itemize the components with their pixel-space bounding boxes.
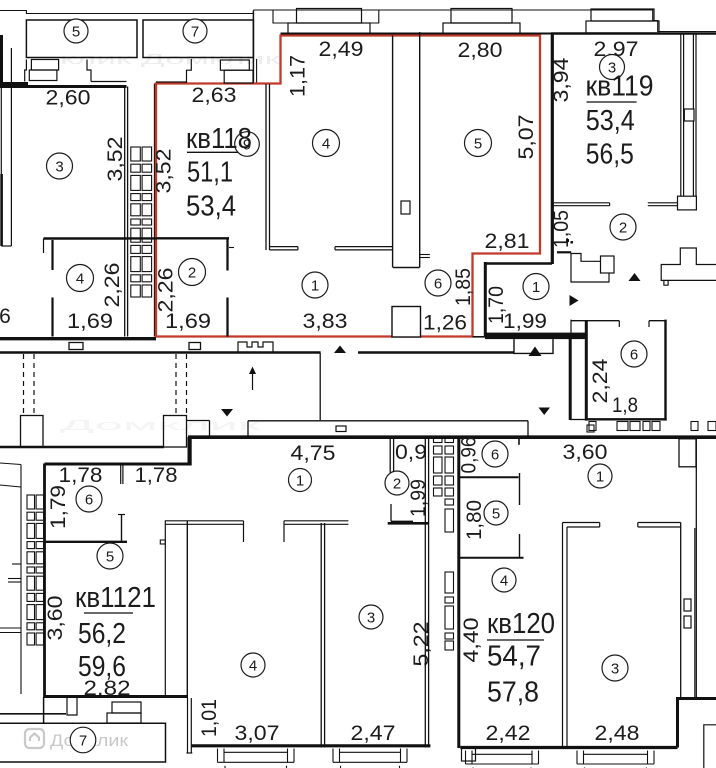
door jamb right bbox=[283, 521, 285, 542]
party wall hatch column kv118-left bbox=[131, 147, 141, 161]
kv119 left wall bbox=[551, 34, 554, 265]
svg-text:1: 1 bbox=[532, 279, 540, 296]
balcony 7 step box lower bbox=[224, 70, 253, 83]
balcony 7 bottom box bbox=[0, 723, 166, 762]
shaft wall rooms4-5 right line bbox=[419, 32, 421, 268]
svg-text:1,01: 1,01 bbox=[198, 699, 221, 737]
window room5 kv118 upper box bbox=[451, 9, 512, 24]
hatch row right of stair bbox=[589, 422, 596, 431]
upper block bottom wall right segment bbox=[358, 351, 514, 354]
kv1121 balcony step box2 bbox=[107, 713, 141, 723]
porch right vertical bbox=[43, 697, 45, 723]
left wall double line y630 bbox=[0, 627, 21, 629]
room circle 5 kv120 bbox=[484, 501, 508, 525]
kv1121 right wall double bbox=[424, 437, 426, 747]
kv120 top wall left cap bbox=[599, 523, 601, 528]
triangle up mid band door bbox=[334, 346, 346, 354]
svg-text:7: 7 bbox=[191, 23, 199, 40]
corridor step vertical left bbox=[247, 421, 249, 437]
svg-text:2,47: 2,47 bbox=[351, 722, 396, 745]
svg-text:4: 4 bbox=[76, 270, 84, 287]
svg-text:2,63: 2,63 bbox=[192, 84, 237, 107]
kv1121 bottom wall bbox=[44, 695, 188, 698]
kv120 bottom wall bbox=[460, 746, 677, 749]
svg-text:1,26: 1,26 bbox=[423, 312, 467, 335]
svg-text:2,24: 2,24 bbox=[589, 358, 612, 403]
pier below top wall kv120 bbox=[679, 439, 696, 467]
arrow up entry bbox=[629, 273, 641, 281]
kv120 right wall lower thick bbox=[676, 697, 679, 748]
room circle 5 kv1121 bbox=[97, 543, 123, 569]
window sill room4 kv1121 bbox=[217, 749, 219, 763]
hatch column kv1121 left bbox=[27, 495, 35, 509]
stairs landing foot bbox=[664, 280, 668, 285]
bathroom right wall kv118 bbox=[484, 262, 487, 337]
arrow right entry bbox=[570, 295, 579, 306]
rooms 4-3 divider double line bbox=[320, 523, 322, 748]
kv120 partition 6-5 bbox=[459, 476, 519, 478]
stair room6 right wall bbox=[664, 320, 666, 421]
left outer vertical line bbox=[20, 465, 22, 695]
kv120 partition 6-5 stub bbox=[519, 473, 521, 505]
upper block bottom inner line bbox=[0, 337, 156, 340]
left wall piece y580 bbox=[8, 578, 21, 580]
kv120 room3 top wall left double bbox=[563, 522, 600, 524]
svg-text:3,52: 3,52 bbox=[153, 149, 176, 194]
window kv119 upper box bbox=[591, 9, 654, 21]
entry door frame polygon bbox=[571, 254, 609, 283]
window kv119 lower box bbox=[586, 21, 659, 33]
svg-text:3,52: 3,52 bbox=[104, 137, 127, 182]
stair room6 left connector bbox=[570, 320, 572, 337]
svg-text:5: 5 bbox=[474, 135, 482, 152]
label underline kv120 bbox=[487, 639, 544, 641]
lower block top wall bbox=[188, 435, 716, 439]
triangle down stair bbox=[539, 408, 551, 416]
kv1121 bottom wall rooms bbox=[192, 744, 431, 747]
svg-text:3: 3 bbox=[611, 660, 619, 677]
partition room6-5 kv1121 bbox=[45, 541, 128, 543]
balcony 5 step box lower bbox=[29, 70, 57, 81]
svg-text:3,07: 3,07 bbox=[235, 722, 280, 745]
kv119 top wall bbox=[551, 32, 716, 35]
left wall bottom cap bbox=[1, 245, 11, 247]
balcony 7 circle bbox=[70, 727, 96, 753]
partition stub cap bbox=[118, 514, 125, 516]
corridor bottom piece bbox=[570, 419, 586, 421]
stair room6 top wall left piece bbox=[571, 320, 619, 322]
partition left segment end cap bbox=[297, 247, 299, 250]
bottom right notch lines bbox=[704, 725, 716, 768]
svg-text:1,8: 1,8 bbox=[612, 394, 638, 417]
svg-text:7: 7 bbox=[79, 732, 87, 749]
svg-text:2,80: 2,80 bbox=[458, 39, 503, 62]
stair room6 top wall right piece bbox=[649, 320, 667, 322]
window block in mid band bbox=[189, 343, 201, 350]
svg-text:3: 3 bbox=[367, 609, 375, 626]
kv119 partition room3-room2 left double bbox=[552, 202, 609, 204]
kv120 outer right wall bbox=[695, 439, 697, 698]
window room4 kv118 upper box bbox=[297, 9, 362, 24]
upper block bottom wall left segment bbox=[0, 351, 321, 354]
kv1121 top-left wall end post bbox=[188, 437, 192, 466]
svg-text:5: 5 bbox=[492, 505, 500, 522]
kv120 partition 5-4 stub bbox=[519, 534, 521, 558]
room circle 2 kv1121 bbox=[385, 471, 409, 495]
hatch square under stair bbox=[587, 425, 594, 432]
stairs landing polygon right bbox=[661, 248, 716, 280]
room circle 1 kv120 bbox=[588, 464, 612, 488]
svg-text:1,69: 1,69 bbox=[165, 310, 211, 333]
room circle 6 kv118 bbox=[425, 270, 451, 296]
wall tick right of shaft bbox=[420, 254, 430, 256]
balcony 7 circle bbox=[183, 19, 207, 43]
room2 right wall upper bbox=[226, 238, 228, 270]
svg-text:6: 6 bbox=[630, 346, 638, 363]
svg-text:4,75: 4,75 bbox=[291, 442, 336, 465]
svg-text:4: 4 bbox=[500, 572, 508, 589]
kv120 partition 5-4 bbox=[459, 557, 524, 559]
window jamb right of room4 window bbox=[370, 10, 379, 23]
pier outline left bbox=[21, 416, 44, 448]
pier outline right bbox=[164, 416, 187, 448]
svg-text:1,78: 1,78 bbox=[59, 464, 103, 487]
room circle 6 kv1121 bbox=[76, 486, 102, 512]
svg-text:1: 1 bbox=[296, 472, 304, 489]
balcony 5 door jamb left bbox=[25, 60, 27, 82]
bath wall stub vertical bbox=[390, 504, 392, 521]
kv120 balcony step bottom left bbox=[462, 748, 476, 761]
shaft bottom cap bbox=[393, 267, 420, 269]
svg-text:1,99: 1,99 bbox=[503, 310, 547, 333]
stair room6 bottom wall bbox=[585, 418, 667, 420]
balcony 7 step box upper bbox=[220, 60, 249, 70]
left outer wall lower thick part bbox=[0, 174, 3, 246]
svg-text:2,60: 2,60 bbox=[46, 87, 91, 110]
wall tick below top wall bbox=[518, 439, 520, 445]
kv118 red apartment outline bbox=[156, 36, 540, 337]
room circle 4 kv118 bbox=[313, 130, 340, 157]
wall slab left of balcony5 steps bbox=[0, 82, 28, 87]
svg-text:6: 6 bbox=[0, 305, 11, 328]
left balcony edge lines bbox=[0, 463, 21, 465]
room2 right wall lower bbox=[226, 298, 228, 337]
balcony 5 circle bbox=[64, 19, 88, 43]
svg-text:1,05: 1,05 bbox=[550, 210, 573, 248]
kv1121 room4 left wall bbox=[186, 521, 188, 698]
svg-text:6: 6 bbox=[434, 275, 442, 292]
corridor ledge vertical bbox=[209, 421, 211, 437]
svg-text:5: 5 bbox=[72, 23, 80, 40]
svg-text:56,2: 56,2 bbox=[78, 618, 126, 650]
balcony 7 box bbox=[143, 20, 253, 58]
svg-text:1,78: 1,78 bbox=[135, 464, 178, 487]
room circle 5 kv118 bbox=[465, 130, 492, 157]
threshold under balcony 7 left jamb bbox=[187, 59, 192, 83]
svg-text:1,99: 1,99 bbox=[407, 479, 430, 517]
stair room6 left wall bbox=[585, 321, 588, 421]
kv1121 top wall left section bbox=[45, 463, 189, 466]
partition room4 bottom left segment double bbox=[270, 246, 298, 248]
room circle 3 bbox=[47, 153, 73, 179]
kv119 partition room3-room2 right double bbox=[648, 202, 678, 204]
kv119 partition left cap bbox=[609, 203, 611, 206]
svg-text:3,60: 3,60 bbox=[563, 441, 608, 464]
wall stub below top wall kv1121 bbox=[120, 464, 122, 484]
label underline kv1121 bbox=[84, 612, 133, 614]
svg-text:1,69: 1,69 bbox=[67, 310, 113, 333]
svg-text:1: 1 bbox=[596, 468, 604, 485]
svg-text:3,94: 3,94 bbox=[550, 57, 573, 102]
room circle 1 stairhall bbox=[523, 274, 549, 300]
svg-text:6: 6 bbox=[491, 446, 499, 463]
svg-text:6: 6 bbox=[85, 491, 93, 508]
door leaf kv119 right wall bbox=[684, 109, 694, 121]
entry door lintel bbox=[557, 251, 571, 253]
window sill left kv120 bbox=[465, 751, 467, 765]
vent block above red line bbox=[392, 307, 421, 338]
room circle 6 kv120 bbox=[482, 441, 508, 467]
vent rect kv120 right 1 bbox=[684, 599, 691, 611]
svg-text:5,22: 5,22 bbox=[410, 622, 433, 667]
room 4 left wall lower piece bbox=[51, 298, 53, 337]
svg-text:кв118: кв118 bbox=[186, 123, 252, 155]
kv1121 bath bottom wall thick bbox=[388, 522, 429, 525]
kv1121 balcony step jamb bbox=[67, 697, 77, 715]
window jamb left of room4 window bbox=[253, 10, 288, 23]
room circle 2 kv118 bbox=[179, 259, 206, 286]
svg-text:2,42: 2,42 bbox=[486, 722, 531, 745]
left wall piece y564 bbox=[12, 563, 21, 565]
room circle 3 kv119 bbox=[600, 55, 625, 80]
stair steps symbol mid band bbox=[238, 342, 273, 353]
room circle 4 kv120 bbox=[492, 568, 516, 592]
room circle 1 kv1121 bbox=[289, 469, 312, 492]
kv120 bottom-right wall band bbox=[676, 697, 716, 700]
room 4 left wall upper piece bbox=[51, 240, 53, 270]
threshold line under balcony 5 bbox=[91, 81, 127, 83]
partition right segment end cap bbox=[334, 247, 336, 250]
svg-text:0,96: 0,96 bbox=[458, 437, 481, 474]
porch line bottom left bbox=[0, 713, 66, 715]
window room5 kv118 lower box bbox=[443, 23, 520, 35]
kv119 right wall inner double bbox=[680, 34, 682, 209]
room 3 right wall double line bbox=[124, 87, 126, 337]
kv120 room3 top wall right double bbox=[638, 522, 681, 524]
svg-text:2,81: 2,81 bbox=[485, 230, 530, 253]
corridor step vertical right bbox=[527, 421, 529, 437]
vent box right of hall bbox=[601, 256, 615, 273]
hatch column kv1121-kv120 party wall bbox=[434, 437, 443, 443]
hallway door tick bbox=[160, 540, 165, 544]
kv120 room3 left wall double bbox=[562, 523, 564, 749]
svg-text:1: 1 bbox=[311, 277, 319, 294]
kv120 left wall bbox=[457, 437, 460, 748]
room circle 2 kv119 bbox=[610, 214, 636, 240]
lower left corridor bottom wall bbox=[0, 446, 164, 449]
room circle 6 stair bbox=[621, 341, 647, 367]
shaft wall rooms4-5 left line bbox=[392, 36, 394, 268]
party wall inner edge at red outline bbox=[154, 84, 156, 337]
hallway thin wall kv1121 bbox=[164, 520, 166, 695]
svg-text:5,07: 5,07 bbox=[515, 115, 538, 160]
svg-text:3,60: 3,60 bbox=[44, 596, 67, 641]
svg-text:0,9: 0,9 bbox=[395, 441, 427, 464]
label underline kv118 bbox=[187, 151, 238, 153]
svg-text:2,49: 2,49 bbox=[319, 38, 364, 61]
corridor wall step down bbox=[514, 339, 553, 353]
room 3 top wall bbox=[0, 85, 127, 88]
kv1121 balcony step box1 bbox=[112, 702, 141, 713]
direction arrow up bbox=[252, 372, 254, 390]
svg-text:53,4: 53,4 bbox=[186, 191, 236, 223]
kv119 outer right wall double bbox=[692, 34, 694, 209]
svg-text:4: 4 bbox=[322, 135, 330, 152]
wall stub between balcony7 and kv118 bbox=[252, 11, 254, 84]
label underline kv119 bbox=[587, 101, 637, 103]
balcony 5 box bbox=[26, 20, 137, 58]
partition room4 bottom right segment double bbox=[335, 246, 393, 248]
vent rect above wall bbox=[336, 426, 346, 432]
stair room6 door jamb left bbox=[618, 321, 620, 327]
svg-text:1,17: 1,17 bbox=[287, 55, 310, 97]
window block left apartment bottom wall bbox=[69, 343, 83, 350]
room circle 3 kv1121 bbox=[359, 605, 383, 629]
room circle 1 kv118 bbox=[302, 272, 328, 298]
kv119 wall junction box bbox=[678, 196, 697, 210]
room 4 partition wall left apartment bbox=[44, 237, 127, 239]
kv120 top wall right cap bbox=[637, 523, 639, 528]
partition stub up bbox=[121, 515, 123, 542]
corridor ledge right of pier bbox=[186, 420, 209, 422]
entry vestibule thick wall segment bbox=[485, 333, 585, 340]
svg-text:56,5: 56,5 bbox=[586, 139, 634, 171]
room2 wall tick bbox=[229, 247, 234, 249]
hall right wall going down bbox=[569, 338, 572, 420]
kv1121 room1 bottom wall left segment double bbox=[165, 520, 243, 522]
svg-text:4: 4 bbox=[249, 657, 257, 674]
svg-text:кв120: кв120 bbox=[487, 608, 555, 640]
svg-text:2,48: 2,48 bbox=[595, 722, 640, 745]
room circle 4 kv1121 bbox=[241, 653, 265, 677]
room circle 4 left apartment bbox=[67, 265, 94, 292]
svg-text:Домклик: Домклик bbox=[60, 417, 261, 434]
partition step left apartment bbox=[43, 239, 45, 254]
window sill room3 kv1121 bbox=[332, 749, 334, 763]
roof edge line top-right bbox=[253, 10, 716, 32]
wall room9-room4 double line bbox=[265, 84, 267, 250]
svg-text:2,26: 2,26 bbox=[101, 263, 124, 308]
second jamb line below balcony 7 bbox=[256, 59, 258, 84]
svg-text:1,80: 1,80 bbox=[463, 500, 486, 540]
svg-text:1,85: 1,85 bbox=[452, 268, 475, 306]
dashed column pair left bbox=[24, 354, 187, 414]
triangle up mid bbox=[529, 347, 542, 357]
red corner connector wall bbox=[473, 336, 486, 338]
window sill right kv120 bbox=[576, 751, 578, 765]
svg-text:54,7: 54,7 bbox=[487, 641, 541, 673]
balcony 5 step box upper bbox=[31, 60, 58, 71]
svg-text:5: 5 bbox=[106, 548, 114, 565]
bath wall stub horizontal bbox=[391, 520, 413, 522]
entry door mark dots bbox=[566, 239, 569, 242]
kv1121 room1 bottom wall mid segment double bbox=[284, 520, 348, 522]
svg-text:51,1: 51,1 bbox=[187, 157, 233, 189]
door jamb left bbox=[243, 521, 245, 542]
svg-text:4,40: 4,40 bbox=[460, 618, 483, 663]
wall going down from upper wall bbox=[319, 353, 321, 420]
kv118 black wall under top red line bbox=[281, 33, 716, 35]
corridor long thin line above lower wall bbox=[248, 420, 528, 422]
svg-text:57,8: 57,8 bbox=[487, 677, 539, 709]
svg-text:кв119: кв119 bbox=[586, 70, 654, 102]
partition crossing party wall bbox=[127, 237, 157, 239]
partition room9-room2 bbox=[157, 237, 230, 239]
svg-text:3,83: 3,83 bbox=[303, 310, 348, 333]
outer wall top-left corner thick bar bbox=[0, 35, 3, 87]
stair room6 door jamb right bbox=[648, 321, 650, 327]
balcony door jamb cap bbox=[186, 752, 192, 754]
svg-text:кв1121: кв1121 bbox=[75, 582, 156, 614]
svg-text:2: 2 bbox=[393, 475, 401, 492]
balcony 5 door jamb right bbox=[87, 60, 91, 82]
vent rect kv120 right 2 bbox=[684, 616, 691, 628]
vestibule top wall bbox=[485, 262, 552, 265]
kv1121 left wall bbox=[43, 464, 46, 698]
kv120 right inner wall bbox=[680, 523, 682, 698]
bath left wall upper bbox=[389, 437, 391, 472]
svg-text:2,26: 2,26 bbox=[155, 268, 178, 313]
window room4 kv118 lower box bbox=[288, 23, 370, 35]
triangle down left corridor bbox=[221, 409, 233, 417]
roof edge line top-left bbox=[0, 11, 253, 14]
room circle 9 kv118 bbox=[235, 132, 260, 157]
threshold line under balcony 7 bbox=[156, 81, 187, 83]
left outer wall double line bbox=[0, 54, 2, 246]
watermark domklik logo bottom left bbox=[25, 729, 44, 748]
svg-text:3: 3 bbox=[55, 158, 63, 175]
svg-text:53,4: 53,4 bbox=[586, 105, 635, 137]
svg-text:1,79: 1,79 bbox=[47, 485, 70, 529]
svg-text:2: 2 bbox=[188, 264, 196, 281]
door leaf in shaft wall bbox=[401, 201, 410, 214]
svg-text:2: 2 bbox=[619, 219, 627, 236]
kv1121 balcony door jamb double bbox=[187, 698, 189, 753]
room circle 3 kv120 bbox=[602, 655, 628, 681]
